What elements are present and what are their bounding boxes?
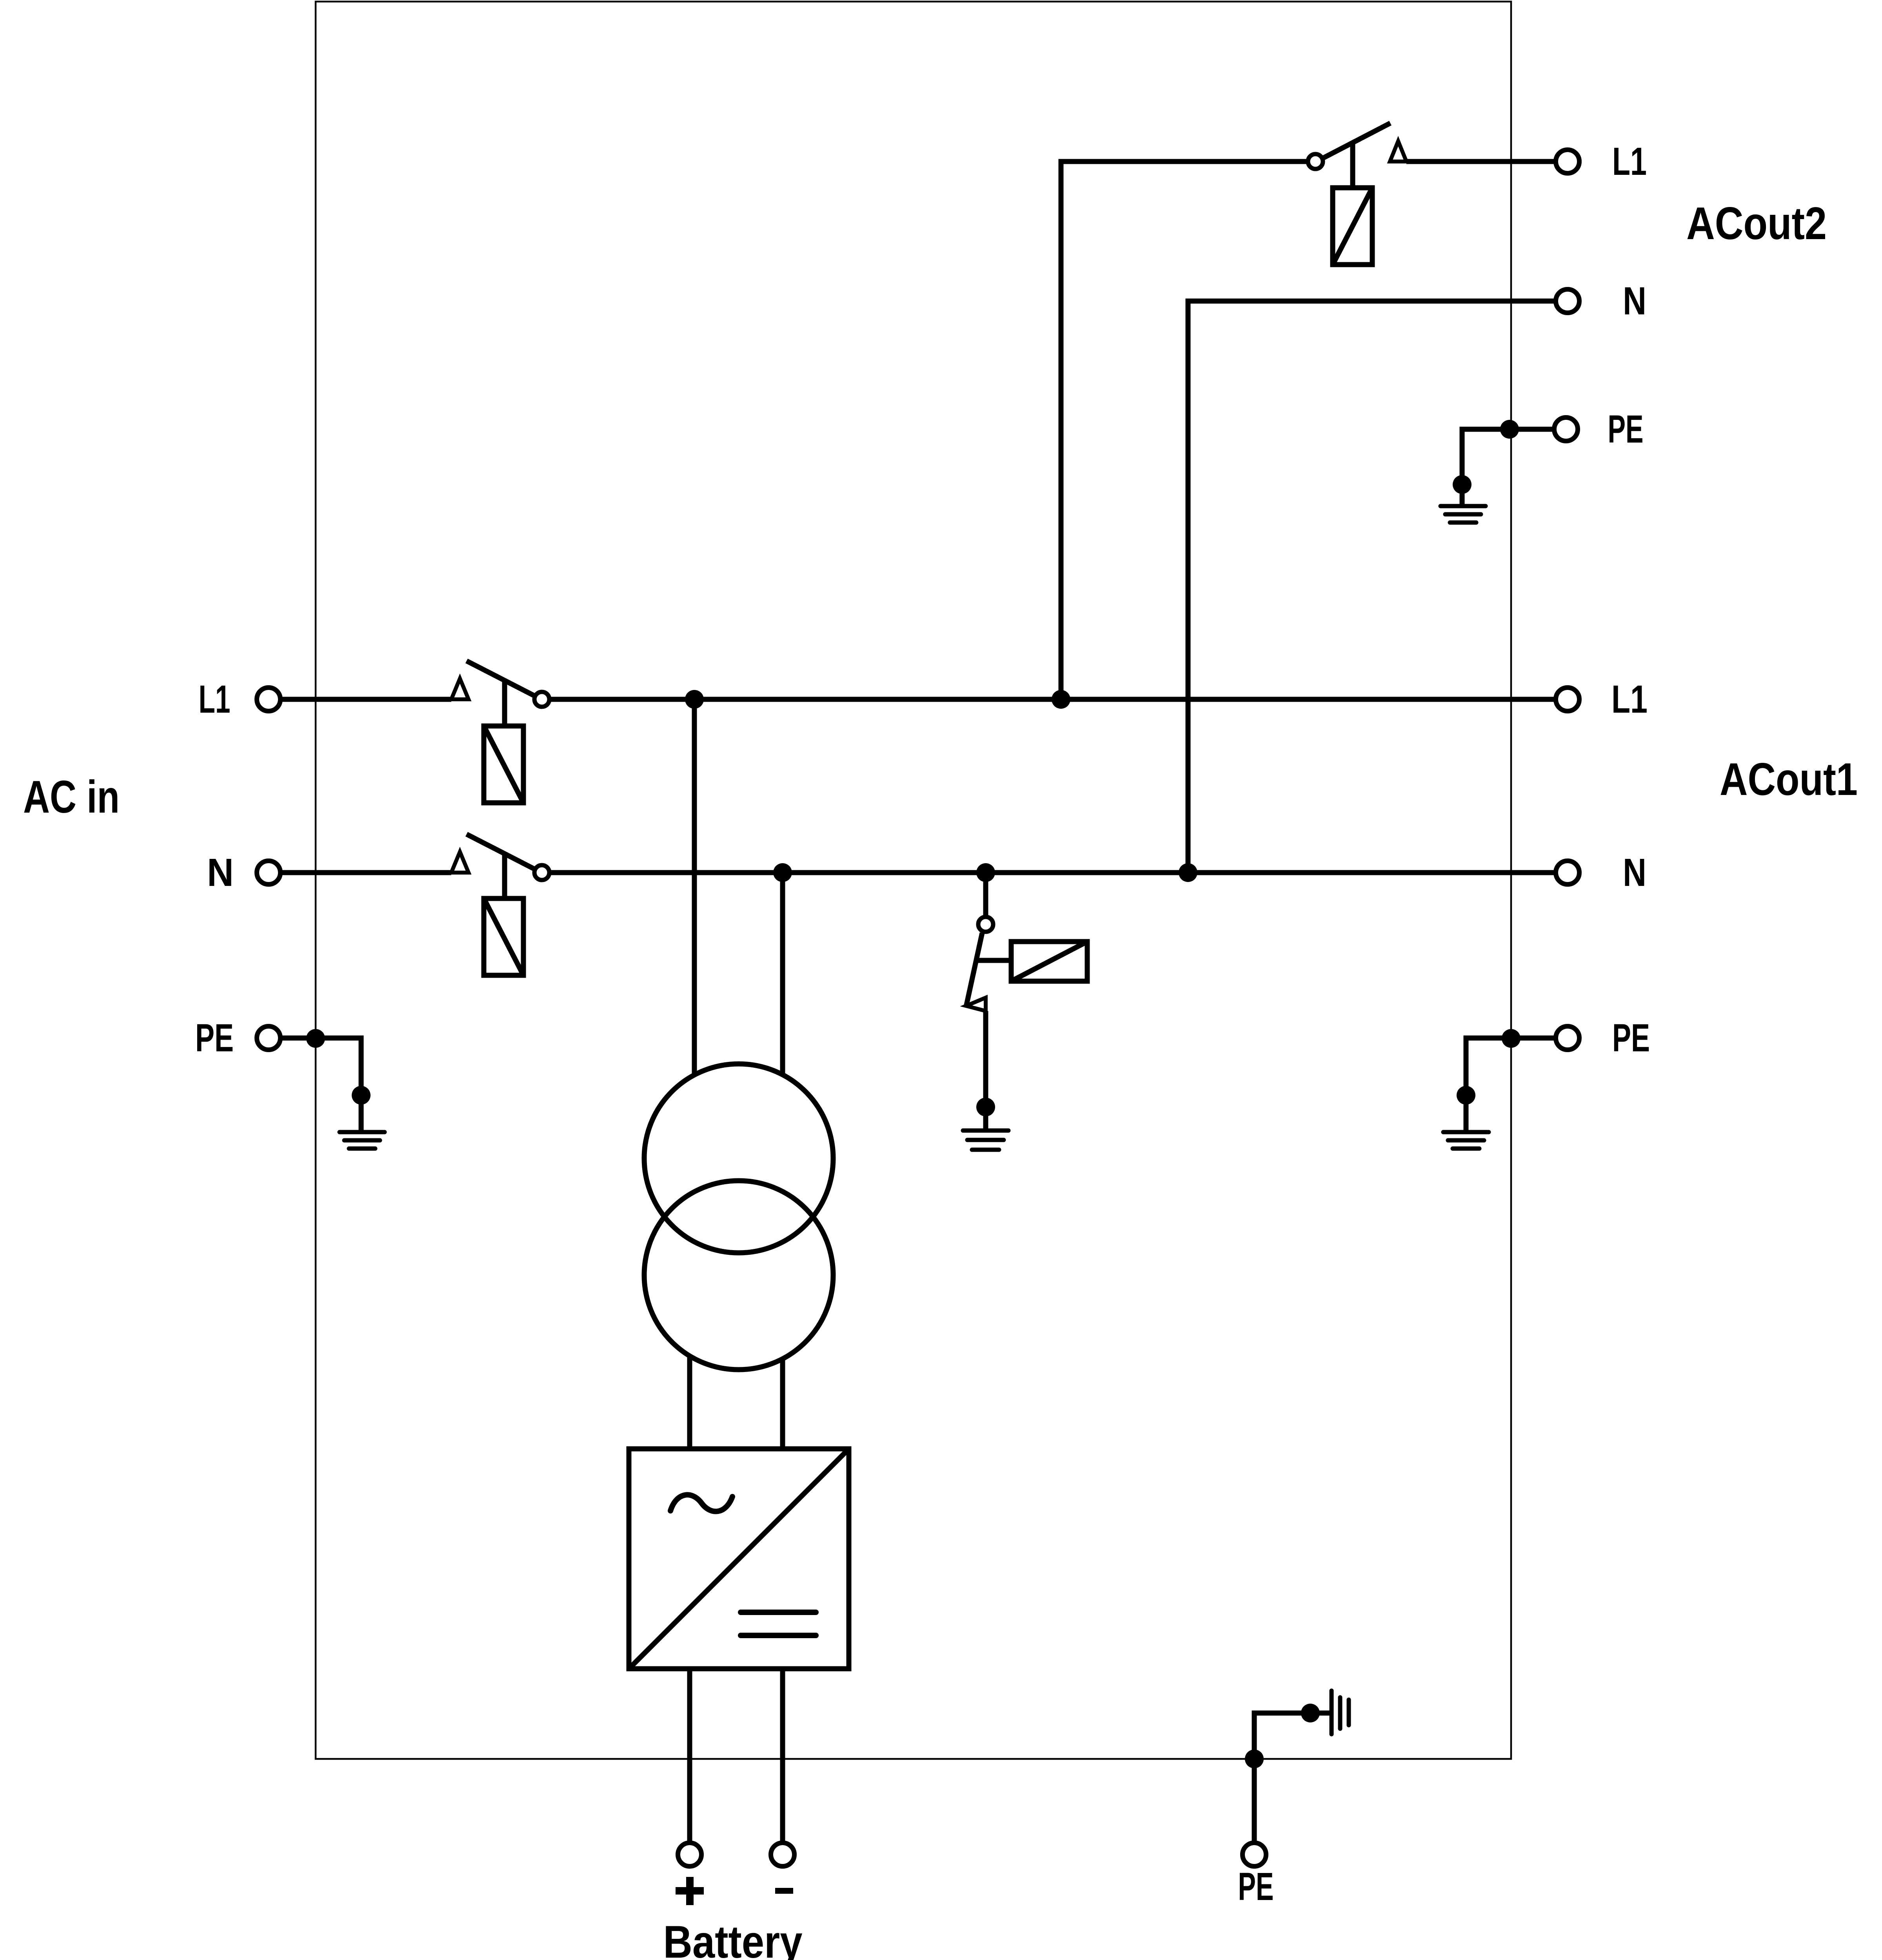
junction transformer L1 xyxy=(685,690,704,709)
AC tilde symbol xyxy=(670,1495,732,1511)
junction ground-relay N xyxy=(976,863,995,882)
transformer T1 winding bottom xyxy=(644,1181,833,1370)
ground relay arm xyxy=(966,933,982,1007)
breaker arrow triangle N xyxy=(451,852,469,873)
terminal PE (AC in) xyxy=(257,1026,280,1050)
wire transformer to inverter right xyxy=(780,1359,785,1449)
relay coil K1 (ACout2) xyxy=(1333,188,1372,265)
terminal battery + xyxy=(678,1843,701,1866)
ground symbol (AC in PE) xyxy=(340,1132,385,1149)
junction PE ground (ACout1) xyxy=(1457,1086,1475,1105)
svg-text:PE: PE xyxy=(1612,1016,1650,1060)
svg-text:PE: PE xyxy=(195,1016,234,1060)
relay arm ACout2 xyxy=(1322,123,1390,159)
ground relay coil tap xyxy=(978,958,1011,963)
svg-text:N: N xyxy=(1623,851,1646,895)
junction ACout2 N xyxy=(1179,863,1197,882)
chassis ground symbol xyxy=(1332,1691,1349,1734)
relay arrow triangle ACout2 xyxy=(1390,141,1406,162)
wire transformer to inverter left xyxy=(687,1357,692,1449)
ground relay pivot xyxy=(978,917,993,932)
junction chassis PE dot xyxy=(1301,1704,1320,1722)
terminal chassis PE xyxy=(1243,1843,1266,1866)
svg-text:PE: PE xyxy=(1608,407,1644,451)
svg-text:AC in: AC in xyxy=(23,771,120,822)
wire transformer primary xyxy=(692,699,697,1076)
svg-text:L1: L1 xyxy=(1611,677,1648,721)
wire battery negative xyxy=(780,1669,785,1841)
switch pivot L1 xyxy=(534,692,549,707)
wire N bus xyxy=(549,870,1554,875)
breaker coil link L1 xyxy=(502,680,507,726)
ground symbol (ACout1 PE) xyxy=(1443,1132,1489,1149)
wire ACout2 L1 out xyxy=(1406,159,1554,164)
inverter/charger U1 xyxy=(629,1449,849,1669)
junction PE box edge (AC in) xyxy=(306,1029,325,1048)
wire transformer secondary xyxy=(780,873,785,1076)
junction ground relay dot xyxy=(976,1098,995,1116)
wire ACout2 N branch xyxy=(1188,301,1554,873)
terminal L1 (ACout2) xyxy=(1556,150,1579,173)
wire PE (ACout2) xyxy=(1462,429,1554,504)
ground relay down wire xyxy=(983,1011,988,1129)
terminal L1 (AC in) xyxy=(257,688,280,711)
terminal N (ACout2) xyxy=(1556,289,1579,313)
enclosure box xyxy=(316,2,1511,1759)
breaker coil link N xyxy=(502,853,507,898)
wire N input xyxy=(278,870,451,875)
breaker F1 (L1) xyxy=(484,726,523,803)
terminal PE (ACout1) xyxy=(1556,1026,1579,1050)
plus sign xyxy=(676,1877,704,1905)
svg-text:L1: L1 xyxy=(1612,140,1647,183)
ground symbol (ACout2 PE) xyxy=(1441,506,1486,523)
svg-text:N: N xyxy=(1623,279,1646,323)
breaker F2 (N) xyxy=(484,898,523,975)
wire chassis PE xyxy=(1254,1713,1330,1841)
wire battery positive xyxy=(687,1669,692,1841)
terminal L1 (ACout1) xyxy=(1556,688,1579,711)
ground symbol (relay) xyxy=(963,1131,1008,1150)
svg-text:N: N xyxy=(207,851,234,895)
junction PE box edge (ACout2) xyxy=(1500,420,1519,439)
transformer T1 winding top xyxy=(644,1064,833,1253)
wire PE output (ACout1) xyxy=(1466,1038,1554,1130)
breaker arrow triangle L1 xyxy=(451,679,469,699)
junction transformer N xyxy=(773,863,792,882)
svg-text:Battery: Battery xyxy=(663,1916,803,1960)
minus sign xyxy=(775,1888,793,1894)
ground relay coil K2 xyxy=(1011,942,1087,981)
wire PE input xyxy=(278,1038,361,1130)
wire L1 input xyxy=(278,697,451,702)
switch arm N xyxy=(467,834,538,871)
relay coil link ACout2 xyxy=(1350,143,1355,188)
svg-text:L1: L1 xyxy=(199,677,231,721)
terminal N (AC in) xyxy=(257,861,280,884)
relay pivot ACout2 xyxy=(1308,154,1323,169)
DC equals symbol xyxy=(741,1612,816,1635)
svg-text:ACout1: ACout1 xyxy=(1720,753,1858,805)
junction PE ground (ACout2) xyxy=(1453,475,1471,494)
junction PE box edge (ACout1) xyxy=(1502,1029,1520,1048)
wire L1 bus xyxy=(549,697,1554,702)
switch pivot N xyxy=(534,865,549,880)
svg-text:PE: PE xyxy=(1238,1865,1274,1909)
ground relay arrow triangle xyxy=(966,998,986,1011)
svg-text:ACout2: ACout2 xyxy=(1686,198,1827,249)
ground relay branch wire xyxy=(983,873,988,917)
junction chassis PE box edge xyxy=(1245,1749,1264,1768)
terminal battery - xyxy=(771,1843,794,1866)
terminal N (ACout1) xyxy=(1556,861,1579,884)
terminal PE (ACout2) xyxy=(1554,417,1578,441)
switch arm L1 xyxy=(467,661,538,697)
junction ACout2 L1 xyxy=(1052,690,1070,709)
wire ACout2 L1 branch xyxy=(1061,162,1309,699)
junction PE ground (AC in) xyxy=(352,1086,371,1105)
